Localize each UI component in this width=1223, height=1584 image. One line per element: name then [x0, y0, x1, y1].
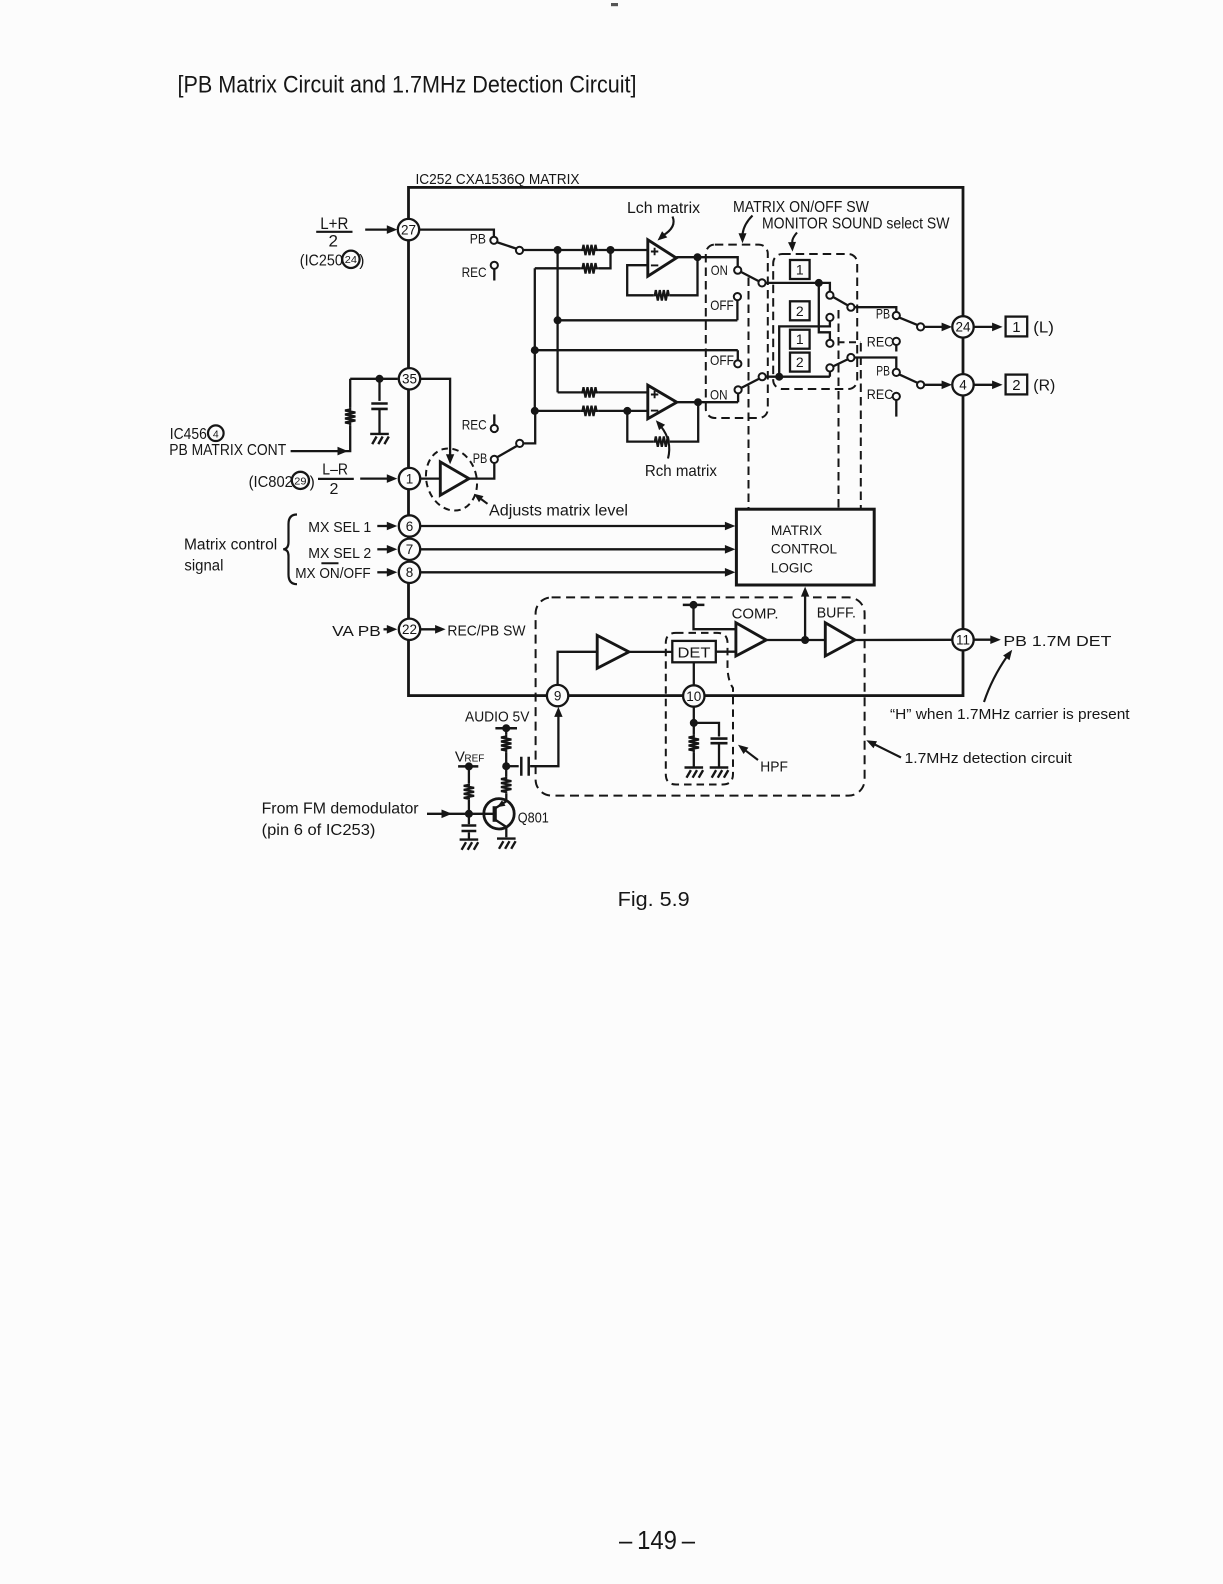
svg-text:CONTROL: CONTROL — [771, 541, 837, 557]
wire SW2 to PB-R — [855, 358, 897, 369]
op-amp matrix level — [440, 462, 469, 495]
capacitor HPF — [711, 739, 728, 744]
dashed box 1.7MHz detection circuit — [536, 597, 865, 795]
capacitor coupling — [521, 757, 528, 776]
svg-text:24: 24 — [345, 254, 357, 266]
svg-text:PB: PB — [473, 450, 488, 466]
dashed ellipse — [419, 442, 484, 516]
resistor R-cont — [345, 407, 355, 425]
brace — [283, 515, 297, 585]
wire Lch to select node — [766, 282, 819, 284]
wire pin35 right — [420, 379, 451, 455]
wire to pin 4 — [924, 384, 942, 386]
arrow out of pin 4 — [974, 384, 993, 386]
DET block — [672, 641, 716, 662]
svg-text:2: 2 — [330, 481, 339, 498]
wire PB MATRIX CONT — [291, 450, 338, 452]
ground — [685, 768, 704, 778]
svg-text:2: 2 — [328, 231, 337, 250]
svg-text:4: 4 — [213, 428, 219, 440]
wire pin35 left — [350, 378, 398, 380]
arrow to box2 — [792, 233, 797, 243]
plus sign Rch — [651, 391, 658, 398]
arrow into pin 6 — [377, 525, 388, 527]
switch arm PB-R — [899, 374, 918, 383]
resistor R-L1 — [580, 245, 598, 255]
wire to HPF resistor — [693, 723, 695, 735]
wire Lch OFF line — [558, 300, 738, 320]
svg-text:6: 6 — [406, 519, 414, 534]
svg-text:AUDIO 5V: AUDIO 5V — [465, 710, 530, 726]
wire VREF to R — [468, 766, 470, 783]
resistor Lch feedback — [654, 290, 670, 300]
svg-text:MONITOR SOUND select SW: MONITOR SOUND select SW — [762, 216, 950, 233]
wire SW1 to PB-L — [855, 307, 897, 312]
svg-text:1: 1 — [796, 331, 804, 347]
switch ON contact Lch — [734, 267, 741, 274]
svg-text:From FM demodulator: From FM demodulator — [262, 801, 419, 818]
arrow adjusts — [481, 499, 487, 504]
junction dot Lch out — [694, 253, 702, 261]
pin 27 — [398, 219, 419, 240]
junction dot base — [465, 810, 473, 818]
arrow into pin 8 — [377, 571, 388, 573]
arrow Rch matrix label — [661, 427, 669, 459]
svg-text:10: 10 — [686, 689, 701, 704]
junction dot C1 tap — [376, 375, 384, 383]
wire R to base node — [468, 800, 470, 814]
wire Rch output — [677, 393, 738, 402]
svg-text:REC: REC — [867, 386, 894, 402]
wire pin9 to amp — [558, 652, 598, 685]
svg-text:PB: PB — [876, 306, 890, 322]
svg-text:PB: PB — [876, 363, 890, 379]
ground — [497, 839, 516, 849]
junction dot Rch- row — [531, 407, 539, 415]
switch PB-L contact — [893, 312, 900, 319]
wire pin8 to MCL — [419, 571, 726, 573]
ground — [370, 434, 389, 444]
resistor R-R1 — [580, 387, 598, 397]
dashed linkage line B — [838, 310, 840, 509]
svg-text:35: 35 — [402, 372, 417, 387]
arrow into pin 22 — [384, 628, 389, 630]
pin 9 — [547, 685, 568, 706]
arrow to box1 — [743, 216, 753, 234]
pin 6 — [399, 515, 420, 536]
svg-text:1: 1 — [1012, 319, 1020, 336]
wire to capacitor C1 — [378, 379, 380, 401]
wire base — [427, 813, 493, 815]
wire rail to R — [505, 728, 507, 734]
junction dot bias — [502, 762, 510, 770]
output terminal 2 (R) — [1006, 375, 1028, 395]
comparator COMP — [736, 623, 766, 656]
svg-text:REC/PB SW: REC/PB SW — [447, 623, 525, 639]
arrow out of pin 11 — [974, 639, 991, 641]
arrowhead into pin 9 — [554, 707, 562, 717]
svg-text:(IC250: (IC250 — [300, 253, 343, 270]
switch SW2 arm — [833, 359, 848, 366]
minus sign Rch — [651, 410, 658, 412]
resistor R-L2 — [580, 263, 598, 273]
svg-text:L+R: L+R — [320, 214, 348, 233]
switch REC-R contact — [893, 393, 900, 400]
wire COMP to BUFF — [766, 639, 825, 641]
svg-text:8: 8 — [406, 565, 414, 580]
wire pin27 to PB contact — [419, 230, 494, 237]
switch OFF contact Lch — [734, 293, 741, 300]
plus sign — [651, 248, 658, 255]
wire pin10 down — [693, 707, 695, 723]
svg-text:HPF: HPF — [760, 759, 788, 775]
dashed box HPF — [666, 633, 733, 785]
arrow into level amp — [446, 454, 454, 464]
wire to SW1 pos1 — [819, 283, 830, 292]
svg-text:): ) — [359, 253, 364, 270]
buffer BUFF — [825, 623, 855, 656]
select square 2 — [790, 301, 810, 320]
junction dot OFF-R row — [531, 346, 539, 354]
svg-text:REC: REC — [462, 417, 487, 433]
switch SW2 pos1 contact — [826, 340, 833, 347]
wire to pin 24 — [924, 326, 942, 328]
wire DET to COMP — [716, 651, 736, 653]
dashed box MONITOR SOUND select SW — [773, 254, 857, 389]
svg-text:REC: REC — [462, 264, 487, 280]
pin 8 — [399, 562, 420, 583]
wire Lch feedback — [627, 257, 697, 295]
svg-text:IC252 CXA1536Q MATRIX: IC252 CXA1536Q MATRIX — [416, 171, 580, 188]
arrow HPF — [746, 751, 758, 760]
svg-text:OFF: OFF — [710, 297, 734, 313]
svg-text:– 149 –: – 149 – — [619, 1525, 695, 1555]
wire to SW1 pos2 — [779, 321, 830, 377]
wire DET to pin 10 — [693, 662, 695, 685]
pin 24 — [952, 316, 973, 337]
wire Lch output — [676, 257, 737, 266]
svg-text:PB MATRIX CONT: PB MATRIX CONT — [169, 442, 286, 459]
svg-text:LOGIC: LOGIC — [771, 559, 813, 575]
junction dot at Lch+ node — [607, 246, 615, 254]
wire vertical cross node — [556, 250, 558, 392]
junction dot Rch out — [694, 398, 702, 406]
switch arm Rch on/off — [741, 379, 760, 389]
switch PB contact (L+R) — [490, 237, 497, 244]
svg-text:29: 29 — [294, 475, 306, 487]
svg-text:VA PB: VA PB — [332, 624, 381, 640]
svg-text:2: 2 — [796, 354, 804, 370]
wire R to Q801 emitter — [505, 793, 507, 801]
svg-text:[PB Matrix Circuit and 1.7MHz: [PB Matrix Circuit and 1.7MHz Detection … — [178, 71, 637, 98]
transistor Q801 — [484, 799, 514, 829]
wire pin6 to MCL — [419, 525, 726, 527]
svg-text:1: 1 — [796, 262, 804, 278]
svg-text:MX ON/OFF: MX ON/OFF — [295, 566, 371, 582]
arrow out of pin 24 — [974, 326, 993, 328]
svg-text:22: 22 — [402, 622, 417, 637]
wire arm to Rch- node — [523, 411, 535, 444]
wire pin7 to MCL — [419, 548, 726, 550]
svg-text:PB: PB — [470, 230, 486, 246]
svg-text:Fig. 5.9: Fig. 5.9 — [618, 888, 690, 911]
wire to SW2 pos2 — [829, 372, 831, 377]
dashed linkage line A — [748, 278, 750, 509]
resistor VREF — [464, 784, 474, 800]
switch arm PB-L — [899, 317, 918, 325]
svg-text:MX SEL 2: MX SEL 2 — [308, 546, 371, 562]
resistor bias upper — [501, 734, 511, 752]
wire node to R2 row — [599, 250, 611, 268]
switch PB contact (L-R) — [491, 456, 498, 463]
op-amp Rch matrix — [648, 385, 677, 419]
junction dot HPF — [690, 719, 698, 727]
switch SW1 arm — [833, 297, 848, 306]
wire Rch OFF line — [535, 350, 738, 360]
switch arm (L-R PB/REC) — [497, 446, 517, 458]
wire Rch feedback — [627, 402, 698, 441]
wire resistor branch — [349, 379, 351, 408]
pin 7 — [399, 539, 420, 560]
ground — [710, 768, 729, 778]
switch common Lch — [758, 279, 765, 286]
arrow detection box — [875, 745, 901, 758]
wire amp out to PB — [469, 463, 494, 479]
svg-text:9: 9 — [554, 688, 562, 703]
arrow into pin 1 — [360, 477, 388, 479]
dashed linkage tee — [838, 341, 861, 343]
svg-text:MATRIX ON/OFF SW: MATRIX ON/OFF SW — [733, 199, 869, 216]
op-amp Lch matrix — [648, 240, 677, 276]
junction dot select R — [775, 373, 783, 381]
wire HPF R to ground — [693, 753, 695, 767]
minus sign — [651, 264, 658, 266]
junction dot MCL tap — [801, 636, 809, 644]
wire cap to ground — [468, 832, 470, 839]
power tap bar — [683, 604, 705, 607]
svg-text:IC456: IC456 — [170, 426, 207, 443]
wire R to node — [505, 753, 507, 767]
switch SW1 pos2 contact — [826, 314, 833, 321]
resistor Rch feedback — [654, 436, 670, 446]
wire pin1 to amp — [419, 477, 440, 479]
switch OFF contact Rch — [734, 360, 741, 367]
select square 3 — [790, 330, 810, 349]
svg-text:2: 2 — [1012, 377, 1020, 394]
IC252 box — [409, 187, 964, 695]
svg-text:COMP.: COMP. — [732, 606, 779, 622]
svg-text:24: 24 — [955, 320, 971, 335]
output terminal 1 (L) — [1006, 317, 1028, 337]
select square 4 — [790, 353, 810, 372]
svg-text:1: 1 — [406, 471, 414, 486]
svg-text:BUFF.: BUFF. — [817, 605, 856, 621]
svg-text:27: 27 — [401, 222, 416, 237]
svg-text:OFF: OFF — [710, 352, 734, 368]
svg-text:L–R: L–R — [322, 462, 348, 479]
wire node to cap — [468, 814, 470, 824]
junction dot OFF-L row — [554, 316, 562, 324]
arrow into pin 7 — [377, 548, 388, 550]
wire Rch to select node — [766, 376, 830, 378]
svg-text:4: 4 — [959, 378, 967, 393]
svg-text:2: 2 — [796, 303, 804, 319]
switch arm (L+R PB/REC) — [497, 242, 517, 249]
svg-text:(R): (R) — [1033, 377, 1055, 394]
svg-text:signal: signal — [184, 558, 223, 575]
svg-text:7: 7 — [406, 542, 414, 557]
svg-text:Adjusts matrix level: Adjusts matrix level — [489, 502, 628, 519]
switch REC contact (L-R) — [493, 414, 495, 425]
svg-text:1.7MHz detection circuit: 1.7MHz detection circuit — [905, 750, 1073, 767]
svg-text:MATRIX: MATRIX — [771, 522, 823, 538]
wire R2 to cross column — [535, 268, 581, 411]
wire C1 to ground — [378, 410, 380, 434]
AUDIO 5V rail — [495, 727, 517, 730]
svg-text:ON: ON — [711, 262, 728, 278]
svg-text:ON: ON — [710, 387, 728, 403]
svg-text:“H” when 1.7MHz carrier is pre: “H” when 1.7MHz carrier is present — [890, 706, 1130, 723]
svg-text:MX SEL 1: MX SEL 1 — [308, 520, 371, 536]
arrowhead PB MATRIX CONT — [338, 447, 349, 456]
svg-text:(IC802: (IC802 — [249, 474, 293, 491]
arrow H to output — [984, 657, 1007, 703]
dashed linkage line C — [860, 343, 862, 509]
wire BUFF to pin 11 — [855, 639, 952, 642]
switch SW1 pos1 contact — [826, 292, 833, 299]
junction dot Rch- in — [623, 407, 631, 415]
arrow Lch matrix label — [663, 217, 674, 236]
VREF rail — [458, 765, 478, 768]
switch SW2 pos2 contact — [826, 364, 833, 371]
svg-text:Lch matrix: Lch matrix — [627, 200, 700, 217]
switch common Rch — [759, 373, 766, 380]
wire to HPF cap — [694, 723, 719, 737]
wire resistor to corner — [338, 426, 351, 452]
wire Rch+ line — [558, 391, 648, 393]
wire to SW2 pos1 — [819, 283, 830, 340]
capacitor C1 — [371, 404, 387, 409]
resistor R-R2 — [580, 406, 598, 416]
svg-text:(pin 6 of IC253): (pin 6 of IC253) — [262, 822, 376, 839]
select square 1 — [790, 260, 810, 279]
wire HPF C to ground — [718, 744, 720, 767]
svg-text:Q801: Q801 — [518, 810, 549, 827]
wire cap to pin 9 — [530, 717, 558, 767]
wire cap to divider — [506, 765, 519, 767]
svg-text:11: 11 — [956, 633, 970, 648]
MATRIX CONTROL LOGIC box — [736, 509, 874, 585]
pin 1 — [399, 468, 420, 489]
pin 4 — [952, 374, 973, 395]
junction dot select L — [815, 279, 823, 287]
pin 35 — [399, 368, 420, 389]
svg-text:DET: DET — [678, 644, 711, 661]
capacitor base — [462, 826, 477, 832]
scan artifact — [611, 3, 618, 6]
svg-text:PB 1.7M DET: PB 1.7M DET — [1003, 633, 1111, 650]
wire Rch- line — [535, 410, 648, 412]
junction dot — [554, 246, 562, 254]
switch arm Lch on/off — [741, 272, 759, 282]
svg-text:): ) — [310, 474, 315, 491]
pin 22 — [399, 619, 420, 640]
arrow into pin 27 — [365, 228, 388, 230]
wire R1 to Lch+ — [599, 249, 648, 251]
switch SW1 common — [847, 304, 854, 311]
wire amp to DET — [629, 651, 672, 653]
pin 10 — [683, 685, 704, 706]
pin 11 — [952, 629, 973, 650]
switch SW2 common — [847, 354, 854, 361]
svg-text:REC: REC — [867, 334, 894, 350]
amplifier A1 — [597, 635, 629, 668]
ground — [460, 840, 479, 850]
resistor bias lower — [501, 777, 511, 793]
switch REC-L contact — [893, 338, 900, 345]
switch ON contact Rch — [735, 386, 742, 393]
wire tap to COMP — [694, 605, 736, 629]
switch PB-R contact — [893, 369, 900, 376]
switch REC contact (L+R) — [491, 262, 498, 269]
wire node to R lower — [505, 766, 507, 777]
wire arrow to MCL — [797, 594, 813, 600]
dashed box MATRIX ON/OFF SW — [706, 245, 768, 418]
arrow out of pin 22 — [419, 628, 436, 630]
svg-text:(L): (L) — [1033, 319, 1054, 336]
svg-text:Rch matrix: Rch matrix — [645, 463, 717, 480]
resistor HPF — [689, 734, 699, 752]
wire to node R1 — [523, 249, 580, 251]
svg-text:Matrix control: Matrix control — [184, 537, 277, 554]
